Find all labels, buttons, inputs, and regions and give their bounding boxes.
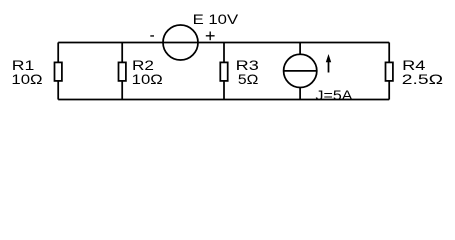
svg-text:E 10V: E 10V: [193, 11, 239, 27]
svg-text:10Ω: 10Ω: [11, 71, 42, 87]
svg-text:5Ω: 5Ω: [238, 71, 259, 87]
svg-text:10Ω: 10Ω: [132, 71, 163, 87]
svg-text:2.5Ω: 2.5Ω: [402, 71, 443, 87]
svg-text:J=5A: J=5A: [316, 87, 354, 103]
